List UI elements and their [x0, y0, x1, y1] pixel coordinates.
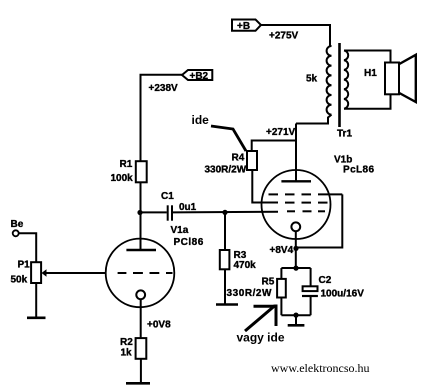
svg-text:+275V: +275V: [269, 31, 299, 42]
svg-text:330R/2W: 330R/2W: [227, 288, 273, 299]
svg-text:V1a: V1a: [171, 225, 189, 236]
svg-text:+B: +B: [237, 21, 250, 32]
svg-text:5k: 5k: [306, 74, 318, 85]
svg-text:0u1: 0u1: [179, 202, 197, 213]
svg-text:470k: 470k: [234, 260, 257, 271]
svg-text:C2: C2: [319, 275, 332, 286]
svg-text:+B2: +B2: [190, 71, 209, 82]
svg-text:www.elektroncso.hu: www.elektroncso.hu: [271, 361, 370, 375]
svg-text:P1: P1: [18, 260, 31, 271]
svg-text:PcL86: PcL86: [343, 165, 375, 176]
svg-text:R5: R5: [262, 277, 275, 288]
svg-text:+8V4: +8V4: [270, 245, 294, 256]
svg-text:R2: R2: [120, 337, 133, 348]
svg-text:ide: ide: [192, 113, 210, 127]
svg-text:100k: 100k: [111, 173, 134, 184]
svg-text:PCl86: PCl86: [174, 237, 204, 248]
svg-text:100u/16V: 100u/16V: [321, 289, 365, 300]
svg-text:330R/2W: 330R/2W: [205, 165, 247, 176]
svg-text:+238V: +238V: [149, 83, 179, 94]
svg-text:1k: 1k: [121, 348, 133, 359]
svg-text:Be: Be: [11, 219, 24, 230]
svg-text:C1: C1: [161, 191, 174, 202]
svg-text:R1: R1: [120, 159, 133, 170]
svg-text:Tr1: Tr1: [337, 129, 352, 140]
svg-text:+0V8: +0V8: [147, 320, 171, 331]
svg-text:50k: 50k: [11, 275, 28, 286]
svg-text:+271V: +271V: [266, 127, 296, 138]
svg-text:R4: R4: [232, 153, 245, 164]
svg-text:vagy ide: vagy ide: [237, 331, 285, 345]
svg-text:H1: H1: [364, 68, 377, 79]
